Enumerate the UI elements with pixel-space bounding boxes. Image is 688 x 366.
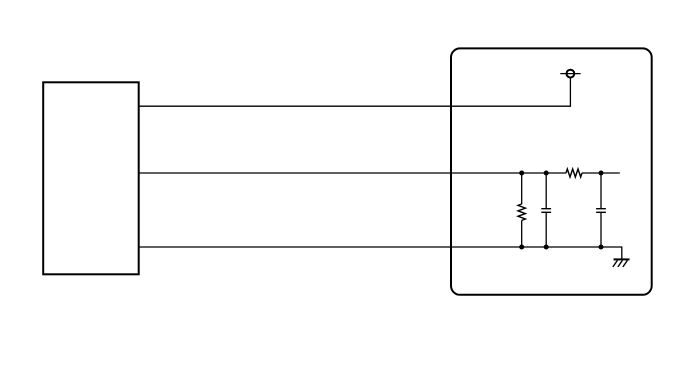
wire capacitor C2 branch lower	[600, 212, 602, 247]
capacitor C2 (vertical, shunt)	[596, 209, 606, 213]
resistor R2 (horizontal, series)	[566, 169, 582, 177]
wire bottom rail	[139, 247, 622, 259]
node junction top-mid	[544, 171, 549, 176]
resistor R1 (vertical, shunt)	[518, 204, 525, 220]
wire resistor R1 branch lower	[521, 220, 523, 247]
node junction bottom-left	[519, 245, 524, 250]
right module box (rounded rectangle)	[451, 48, 652, 294]
wire middle rail left segment	[139, 172, 566, 174]
ground	[613, 259, 630, 267]
node junction top-left	[519, 171, 524, 176]
wire capacitor C1 branch upper	[545, 173, 547, 209]
capacitor C1 (vertical, shunt)	[541, 209, 551, 213]
wire capacitor C1 branch lower	[545, 212, 547, 247]
left block (rectangle)	[43, 82, 139, 274]
terminal circle	[567, 70, 575, 78]
node junction top-right	[599, 171, 604, 176]
wire capacitor C2 branch upper	[600, 173, 602, 209]
wire top (from left block to terminal)	[139, 78, 571, 106]
node junction bottom-right	[599, 245, 604, 250]
node junction bottom-mid	[544, 245, 549, 250]
terminal bar	[560, 73, 580, 75]
wire resistor R1 branch upper	[521, 173, 523, 204]
wire middle rail right segment	[582, 172, 620, 174]
